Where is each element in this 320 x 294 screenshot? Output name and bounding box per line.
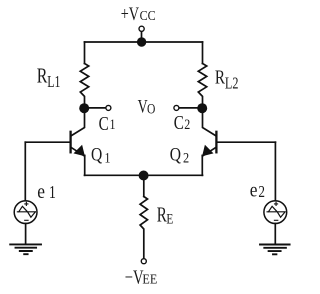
wire right drop to RL2 (202, 42, 204, 64)
svg-text:O: O (147, 100, 155, 117)
label RL2 (215, 66, 239, 93)
wire Q2 collector (203, 113, 217, 136)
node C2 terminal circle (174, 105, 179, 110)
wire e1 to ground (25, 224, 27, 244)
label Q1 (91, 144, 111, 166)
source e1 wave (17, 206, 35, 217)
svg-text:L1: L1 (47, 73, 60, 91)
wire Q1 base (25, 141, 70, 143)
transistor Q1 emitter arrow (74, 145, 85, 157)
node emitter junction dot (139, 171, 149, 181)
wire Vcc stub (141, 31, 143, 42)
wire RE top lead (143, 175, 145, 196)
svg-text:L2: L2 (225, 75, 239, 93)
svg-text:V: V (138, 95, 148, 117)
wire emitter rail (85, 174, 203, 176)
source e1 plus mark (25, 202, 28, 205)
label RL1 (37, 64, 61, 91)
svg-text:+V: +V (121, 3, 139, 24)
source e2 wave (267, 206, 285, 217)
node Vcc terminal circle (139, 26, 144, 31)
wire Q2 base (217, 141, 275, 143)
wire Q1 emitter drop (84, 155, 86, 175)
svg-text:CC: CC (140, 7, 156, 23)
wire top rail (85, 41, 203, 43)
source e2 circle (264, 201, 287, 224)
source e2 plus mark (275, 202, 278, 205)
node C1 junction dot (79, 103, 89, 113)
svg-text:−V: −V (125, 265, 144, 288)
label C2 (174, 111, 191, 134)
label +Vcc (121, 3, 156, 24)
label e2 (250, 179, 265, 202)
resistor RE (140, 197, 147, 259)
label C1 (99, 112, 116, 135)
svg-text:E: E (166, 210, 173, 227)
wire e1 lead (24, 142, 26, 201)
wire left drop to RL1 (84, 42, 86, 64)
source e1 minus mark (25, 219, 28, 221)
ground e2 (260, 245, 290, 255)
node C1 terminal circle (106, 105, 111, 110)
label Q2 (170, 144, 189, 166)
node C2 junction dot (197, 103, 207, 113)
source e1 circle (14, 201, 37, 224)
wire e2 lead (274, 142, 276, 201)
label -Vee (125, 265, 158, 288)
svg-text:1: 1 (110, 116, 116, 133)
svg-text:e: e (37, 181, 45, 204)
transistor Q2 emitter arrow (202, 145, 213, 157)
svg-text:EE: EE (142, 272, 157, 287)
source e2 minus mark (274, 219, 277, 221)
wire C2 stub (179, 107, 198, 109)
wire C1 stub (89, 107, 106, 109)
node Vcc junction dot (137, 37, 146, 46)
transistor Q2 emitter (202, 147, 216, 156)
label e1 (37, 181, 56, 204)
label Vo (138, 95, 156, 117)
ground e1 (10, 244, 41, 254)
svg-text:1: 1 (49, 183, 56, 202)
svg-text:R: R (215, 66, 225, 88)
svg-text:R: R (37, 64, 48, 88)
transistor Q1 base bar (69, 132, 71, 153)
wire Q1 collector (71, 113, 85, 136)
transistor Q2 base bar (215, 132, 217, 153)
label RE (157, 203, 174, 227)
svg-text:2: 2 (183, 149, 189, 165)
wire Q2 emitter drop (201, 155, 203, 175)
resistor RL1 (80, 64, 88, 104)
svg-text:e: e (250, 179, 258, 202)
svg-text:2: 2 (258, 184, 265, 202)
svg-text:Q: Q (91, 144, 103, 165)
svg-text:C: C (99, 112, 109, 135)
svg-text:Q: Q (170, 144, 182, 165)
svg-text:2: 2 (184, 116, 190, 133)
transistor Q1 emitter (71, 147, 85, 156)
svg-text:1: 1 (104, 149, 110, 165)
wire e2 to ground (274, 224, 276, 244)
resistor RL2 (198, 64, 206, 104)
svg-text:C: C (174, 111, 184, 134)
node VEE terminal circle (141, 259, 146, 264)
